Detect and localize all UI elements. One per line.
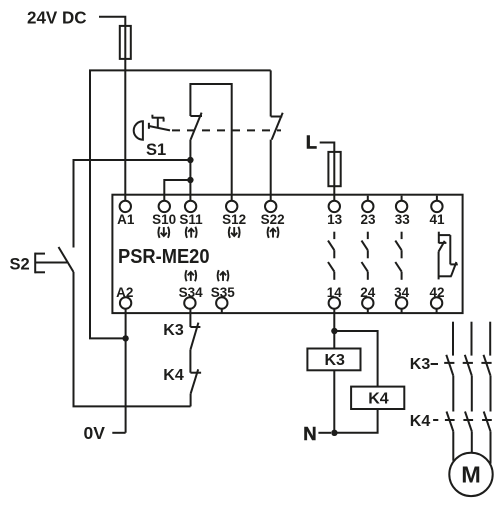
svg-text:S2: S2 xyxy=(10,255,30,273)
svg-text:S1: S1 xyxy=(146,141,166,159)
svg-text:K4: K4 xyxy=(368,390,389,407)
svg-text:14: 14 xyxy=(327,285,343,300)
svg-text:0V: 0V xyxy=(84,423,106,443)
svg-text:S34: S34 xyxy=(179,285,204,300)
svg-text:41: 41 xyxy=(429,212,445,227)
svg-text:K4: K4 xyxy=(410,413,431,430)
svg-text:M: M xyxy=(461,462,481,488)
svg-text:23: 23 xyxy=(360,212,376,227)
svg-text:24V DC: 24V DC xyxy=(27,8,87,28)
svg-text:A2: A2 xyxy=(116,285,133,300)
svg-text:L: L xyxy=(306,132,317,153)
svg-text:K3: K3 xyxy=(325,352,346,369)
svg-text:S22: S22 xyxy=(261,212,285,227)
svg-text:K3: K3 xyxy=(410,356,431,373)
svg-text:13: 13 xyxy=(327,212,343,227)
svg-text:33: 33 xyxy=(395,212,411,227)
svg-text:K3: K3 xyxy=(163,322,184,339)
svg-text:PSR-ME20: PSR-ME20 xyxy=(118,246,210,268)
svg-text:S11: S11 xyxy=(179,212,203,227)
svg-text:34: 34 xyxy=(394,285,410,300)
svg-text:S10: S10 xyxy=(152,212,176,227)
svg-text:24: 24 xyxy=(360,285,376,300)
svg-text:S35: S35 xyxy=(211,285,236,300)
svg-text:K4: K4 xyxy=(163,367,184,384)
svg-text:S12: S12 xyxy=(222,212,246,227)
svg-text:A1: A1 xyxy=(117,212,135,227)
svg-text:N: N xyxy=(303,423,316,444)
svg-text:42: 42 xyxy=(429,285,444,300)
